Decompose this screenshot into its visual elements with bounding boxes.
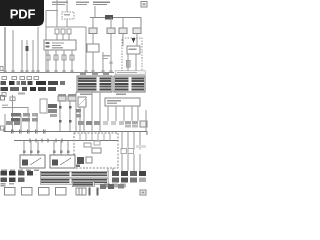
wire into key switch (92, 34, 94, 45)
bus right bend wire (140, 18, 142, 29)
right edge wire (145, 110, 147, 132)
small box row right 1 (100, 184, 106, 189)
branch wire y107 (2, 108, 28, 114)
main power bus top right (90, 17, 141, 19)
right branch wire r3 (133, 132, 135, 150)
feeder stub bus (46, 10, 58, 12)
connector tick 1 (55, 29, 59, 34)
connector box E1 (58, 96, 66, 101)
feed pin squares (23, 151, 70, 154)
right wires to bottom connectors (122, 154, 140, 171)
wire x100 (99, 92, 101, 132)
wire tick2 to switch (62, 34, 64, 40)
column switch wire 4 (131, 106, 133, 121)
jb side caption (102, 55, 110, 59)
inline fuse on wire (10, 97, 15, 101)
joint connector block B (114, 76, 145, 92)
connector label box C-3 (119, 28, 127, 34)
theft alarm relay box (78, 97, 86, 107)
right connector grid row 3 (104, 184, 126, 188)
wire label row mid-left (6, 121, 100, 125)
right branch wire r4 (139, 132, 141, 150)
drop wire x21 (20, 114, 22, 132)
junction block dashed enclosure (122, 38, 142, 74)
left battery wire 1 (4, 27, 6, 73)
ETACS output wire 1 (107, 168, 109, 171)
switch feed wire s5 (60, 141, 62, 156)
wire code label row 3 (1, 87, 57, 91)
left wire 7 (45, 24, 47, 73)
diode D1 (26, 46, 29, 51)
svg-text:PDF: PDF (10, 7, 36, 22)
connector code row A (1, 171, 34, 176)
ref box 2 (1, 96, 5, 101)
wire into dashed fusible box (66, 0, 68, 12)
E1 caption (58, 94, 66, 95)
left wire 6 (37, 27, 39, 73)
fuse element (126, 60, 130, 67)
right connector grid row 1 (112, 171, 146, 176)
wire below fusible box (66, 19, 68, 27)
connector box E2 (68, 96, 76, 101)
bus drop wire 2 (110, 18, 112, 29)
ETACS ground mark (76, 165, 80, 168)
left splice caption (2, 105, 8, 106)
joint connector block A header ticks (80, 73, 109, 75)
terminal outline box 1 (5, 188, 16, 196)
bottom caption texts (1, 169, 39, 171)
splice text (18, 93, 25, 95)
headlamp switch box (20, 155, 45, 168)
ETACS internal label 1 (84, 143, 91, 147)
wire from top to fusible link (56, 0, 58, 27)
ETACS output wire 2 (112, 168, 114, 171)
column switch wire 1 (107, 106, 109, 121)
pin connector with terminals (76, 188, 86, 195)
E2 caption (68, 94, 76, 95)
relay out wire 2 (83, 107, 85, 132)
column switch box (105, 98, 140, 106)
wire from title to bus (94, 6, 96, 18)
page number box bottom right (140, 190, 146, 195)
ETACS internal label 2 (92, 148, 101, 153)
title text block mid (76, 2, 89, 6)
column switch wire 2 (115, 106, 117, 121)
PDF badge (0, 0, 60, 36)
relay out wire 1 (79, 107, 81, 132)
connector tick 3 (67, 29, 71, 34)
splice box S1 (2, 93, 6, 97)
right wire labels (121, 145, 146, 154)
bus connector label (105, 15, 113, 20)
label cluster mid (48, 104, 57, 117)
joint connector block A (77, 76, 112, 92)
switch output wire 1 (47, 50, 49, 73)
switch feed wire s1 (23, 141, 25, 156)
switch feed wire s6 (67, 141, 69, 156)
wire x60 (59, 101, 61, 132)
wire x111 down (110, 34, 112, 73)
long pin header bar B (40, 178, 108, 184)
left edge splice box (1, 126, 5, 130)
page ref box A-10 (141, 2, 147, 8)
wire inside jb 2 (135, 54, 137, 73)
left edge splice marker (0, 67, 3, 71)
wire inside jb 1 (127, 54, 129, 73)
ETACS contact box (86, 157, 92, 163)
switch output wire 4 (71, 50, 73, 73)
fuse tick f1 (12, 130, 14, 134)
wire tick1 to switch (56, 34, 58, 40)
wire x70 (69, 101, 71, 132)
right edge connector box (140, 121, 147, 127)
right connector grid row 2 (112, 178, 146, 183)
key reminder switch box (87, 44, 99, 52)
switch output wire 2 (55, 50, 57, 73)
wire x103 down (102, 52, 104, 73)
terminal outline box 2 (22, 188, 33, 196)
drop wire x29 (28, 114, 30, 132)
terminal outline box 4 (56, 188, 67, 196)
ignition switch box (44, 40, 76, 50)
switch feed wire s2 (30, 141, 32, 156)
splice code row 1 (2, 77, 39, 80)
title text block right (93, 2, 110, 6)
wire code label row 2 (1, 81, 66, 85)
capacitor C2 (97, 188, 99, 196)
feeder stub drop (45, 11, 47, 25)
dashed fusible link box (62, 12, 74, 19)
connector label box C-1 (89, 28, 97, 34)
bus drop wire 1 (92, 18, 94, 29)
fuse tick f2 (20, 130, 22, 134)
long pin header bar A (40, 171, 108, 177)
switch feed wire s4 (53, 141, 55, 156)
ETACS relay coil (77, 157, 84, 164)
feed arrow (132, 38, 136, 43)
main interconnect bus y72.5 (0, 72, 114, 74)
switch output wire 3 (63, 50, 65, 73)
relay pin label b (76, 114, 81, 118)
resistor pack box (40, 99, 47, 113)
fuse tick f3 (28, 130, 30, 134)
wire below key switch (92, 52, 94, 73)
block A caption (80, 94, 92, 96)
connector tick 2 (61, 29, 65, 34)
junction dot a (59, 106, 62, 109)
wire x12.5 (12, 95, 14, 132)
column switch wire 5 (137, 106, 139, 121)
fuse tick f5 (44, 130, 46, 134)
wire x123 into jb (122, 34, 124, 47)
dimmer switch box (50, 155, 75, 168)
horizontal feed wire y27 (46, 26, 86, 28)
junction dot c (59, 120, 62, 123)
inline connector a (46, 55, 50, 60)
bus drop wire 3 (122, 18, 124, 29)
ETACS internal label 1b (94, 141, 100, 145)
connector label box C-4 (133, 28, 141, 34)
ETACS pin stubs (80, 134, 110, 141)
ETACS-ECU dashed box (74, 133, 118, 168)
junction dot d (69, 120, 72, 123)
drop wire x37 (36, 114, 38, 132)
wire x76 (75, 92, 77, 132)
left wire 5 (32, 40, 34, 73)
right branch wire r2 (127, 132, 129, 150)
junction dot b (69, 106, 72, 109)
title text block left (52, 2, 68, 6)
ground bus y140 (14, 140, 118, 142)
paper background (0, 0, 149, 198)
caption strip above block B (115, 71, 145, 75)
small box row right 2 (108, 184, 114, 189)
jb wire pad (110, 62, 113, 65)
inline connector c (62, 55, 66, 60)
switch feed wire s3 (37, 141, 39, 156)
small box row right 3 (118, 184, 124, 189)
left wire 4 with diode (26, 40, 28, 73)
block B caption (116, 94, 126, 96)
bottom left caption (1, 185, 6, 187)
ground bus ticks (30, 139, 62, 143)
page number glyph (142, 192, 145, 194)
column switch wire 3 (123, 106, 125, 121)
right branch wire r1 (121, 132, 123, 150)
wire x92 (91, 92, 93, 132)
fusible link label (64, 14, 70, 15)
left wire 3 (21, 40, 23, 73)
small pin header bar C (72, 181, 94, 187)
connector label box C-2 (107, 28, 115, 34)
wire x137 down (136, 34, 138, 47)
wire label cluster (11, 113, 38, 122)
wire tick3 to switch (68, 34, 70, 40)
wire label row under column switch (103, 121, 138, 128)
connector code row B (1, 178, 25, 185)
fuse box inside junction block (127, 46, 140, 54)
left battery wire 2 (12, 30, 14, 73)
wire bend x86 (85, 27, 87, 73)
terminal outline box 3 (39, 188, 50, 196)
drop wire x5 (4, 114, 6, 132)
bus pin ticks (4, 70, 113, 72)
capacitor C1 (89, 188, 91, 196)
fuse label (129, 49, 137, 50)
relay pin label a (76, 109, 81, 113)
inline connector b (54, 55, 58, 60)
distribution bus y131 (4, 128, 147, 135)
inline connector d (70, 55, 74, 60)
fuse tick f4 (36, 130, 38, 134)
